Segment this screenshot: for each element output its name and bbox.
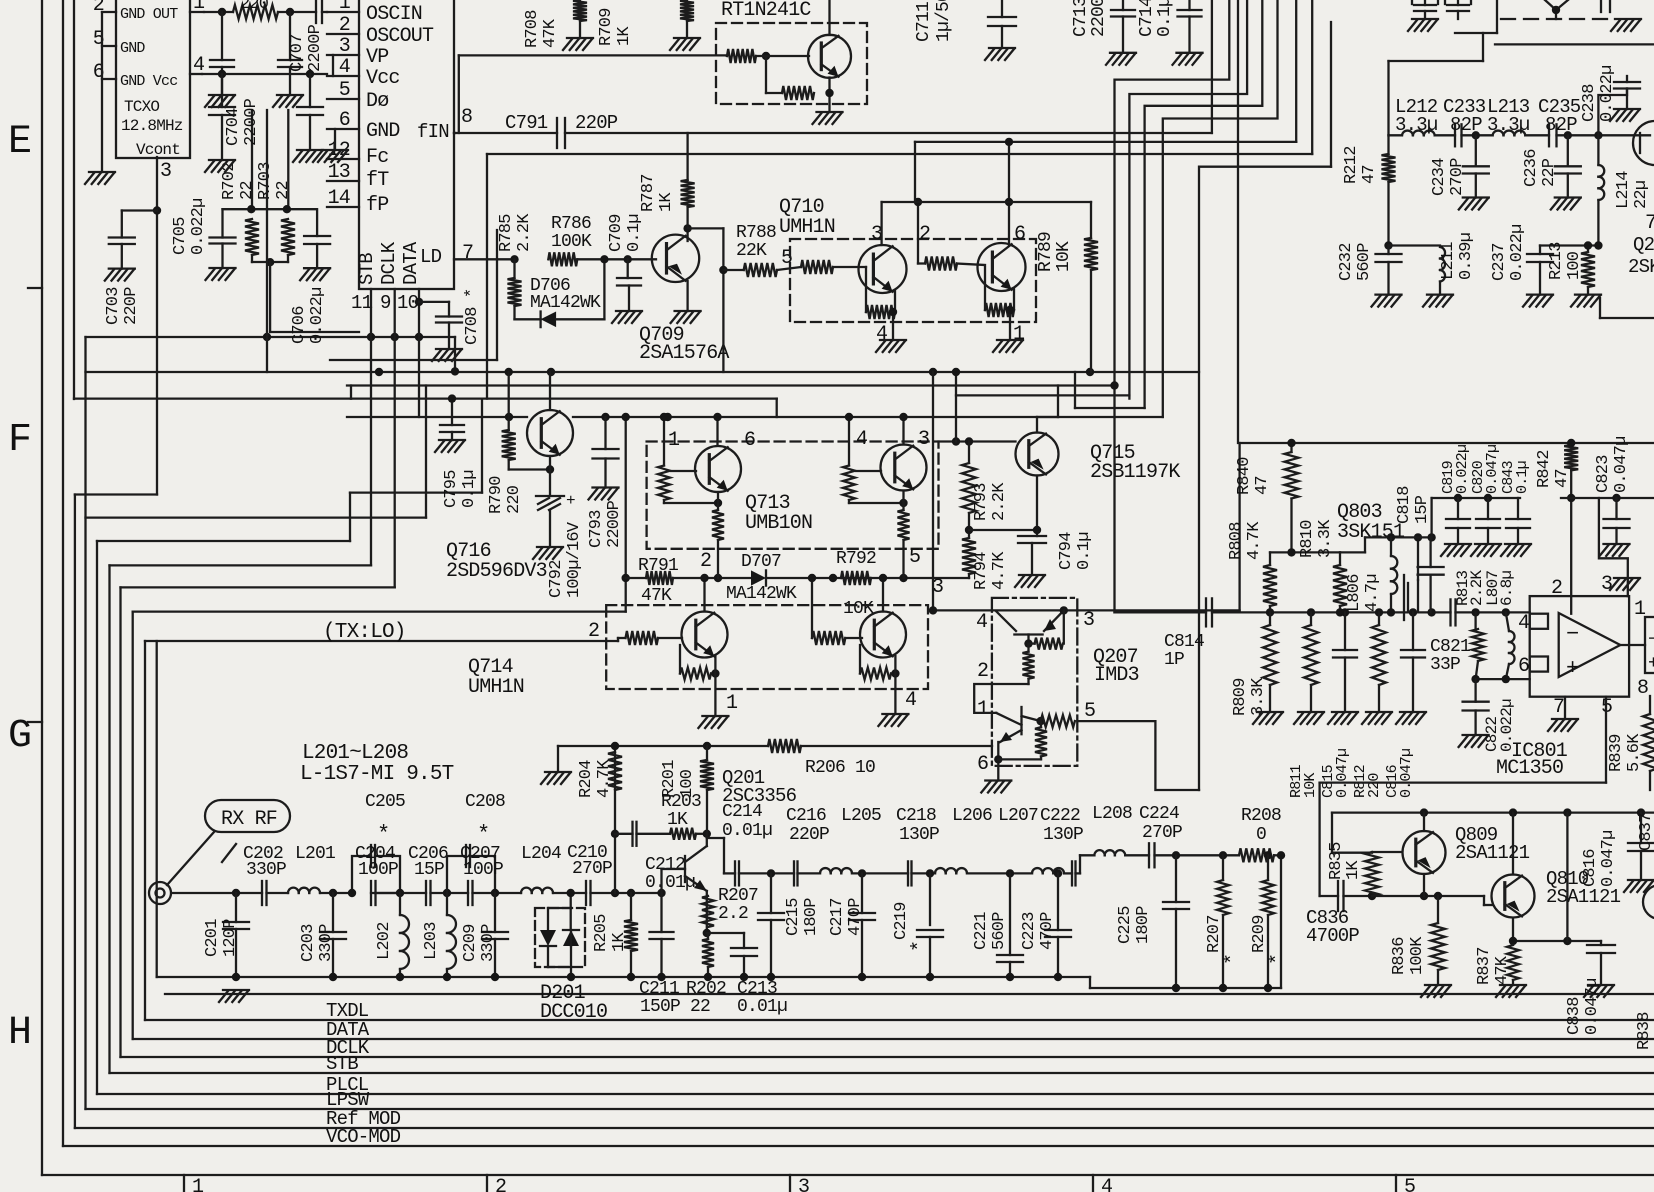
label L211 (1439, 233, 1476, 280)
wire TX:LO line (145, 638, 618, 641)
wire band y417 (347, 413, 1163, 421)
svg-text:2200P: 2200P (242, 98, 261, 146)
svg-text:3: 3 (1083, 609, 1094, 632)
resistor R786 (548, 252, 577, 266)
svg-text:1K: 1K (615, 26, 634, 46)
IC801 pin 4 (1518, 612, 1529, 635)
label R808 (1227, 521, 1264, 560)
svg-text:L211: L211 (1439, 242, 1458, 280)
transistor Q713 T2 (881, 445, 927, 491)
capacitor C838 (1587, 941, 1615, 985)
border frame bottom edge (42, 1174, 1654, 1176)
svg-text:+: + (1566, 656, 1578, 681)
svg-text:3: 3 (339, 35, 350, 58)
svg-text:0.39µ: 0.39µ (1457, 233, 1476, 280)
ground C820 (1471, 544, 1501, 556)
resistor R787 (681, 133, 695, 228)
svg-text:5: 5 (909, 546, 920, 569)
wire Q207 pin5 out (1077, 721, 1199, 790)
wire TCXO Vcc to IC (202, 73, 327, 75)
svg-text:47K: 47K (641, 586, 672, 606)
svg-text:C211: C211 (639, 979, 679, 999)
svg-text:Vcc: Vcc (366, 67, 400, 90)
svg-text:L201~L208: L201~L208 (302, 742, 408, 765)
svg-text:4.7K: 4.7K (990, 551, 1009, 590)
resistor R788 (723, 263, 777, 277)
svg-text:0.047µ: 0.047µ (1599, 831, 1618, 887)
svg-text:5: 5 (1404, 1176, 1415, 1192)
label C815 (1320, 749, 1351, 798)
svg-text:0.022µ: 0.022µ (189, 199, 208, 255)
wire LD stub (454, 258, 515, 260)
wire Q810 base (1484, 896, 1492, 905)
label C711 (914, 0, 954, 42)
label C819 (1440, 445, 1471, 494)
capacitor C211 (650, 893, 674, 981)
svg-text:10K: 10K (1054, 241, 1074, 272)
label R836 (1390, 936, 1427, 975)
svg-text:MA142WK: MA142WK (726, 584, 797, 604)
ground C232 (1372, 295, 1402, 307)
svg-text:C707: C707 (288, 34, 307, 72)
svg-text:47: 47 (1253, 476, 1272, 495)
wire band y409 (1075, 372, 1145, 408)
wire bus line DCLK (121, 1056, 1654, 1058)
resistor Q710 T2 emitter (985, 267, 1014, 317)
label R838 partial (1635, 1012, 1654, 1050)
capacitor C219 (917, 873, 943, 981)
wire filter chain (1389, 134, 1651, 136)
label R208 (1241, 806, 1281, 845)
column tick 1 (184, 1175, 204, 1192)
label L807 (1484, 571, 1516, 606)
svg-text:14: 14 (328, 187, 350, 210)
label L201-L208 group (300, 742, 454, 786)
resistor R793 (962, 442, 976, 514)
wire drain line y537 (1340, 533, 1436, 552)
wire Vcont vertical from TCXO pin3 (156, 157, 158, 495)
wire RX chain (172, 892, 662, 894)
label R205 (592, 914, 629, 952)
svg-text:12.8MHz: 12.8MHz (121, 117, 183, 135)
resistor R205 (624, 893, 638, 981)
ground C816 (1396, 712, 1426, 724)
svg-text:180P: 180P (802, 898, 821, 936)
svg-text:C209: C209 (461, 924, 480, 962)
Q207 pin 3 (1083, 609, 1094, 632)
capacitor C713 (1111, 0, 1135, 53)
trimmer cap top2 (1445, 0, 1471, 19)
svg-text:C706: C706 (290, 306, 309, 344)
svg-text:+: + (1648, 654, 1654, 674)
row tick G (28, 721, 42, 723)
svg-text:4: 4 (339, 56, 350, 79)
label R810 (1298, 519, 1335, 558)
PLL IC U701 box (359, 0, 454, 289)
TCXO box (116, 0, 190, 158)
svg-text:330P: 330P (317, 924, 336, 962)
wire Q201 emitter (703, 891, 711, 937)
svg-text:R201: R201 (660, 760, 679, 798)
wire R204 riser (611, 746, 619, 893)
ground C706 (300, 268, 330, 280)
resistor R811 (1304, 612, 1318, 712)
resistor Q713 T2 emitter (898, 491, 921, 579)
label IC801 (1496, 740, 1568, 780)
capacitor C836 (1338, 881, 1344, 911)
label R787 (639, 174, 676, 212)
wire C212 line (615, 833, 633, 835)
svg-text:C219: C219 (892, 902, 911, 940)
label L213 (1487, 96, 1530, 136)
ground C795 (435, 440, 465, 452)
label C823 (1594, 437, 1631, 493)
net label DCLK (326, 1037, 370, 1059)
Q713 box (647, 442, 939, 549)
label C836 (1306, 907, 1359, 947)
svg-text:22: 22 (690, 997, 710, 1017)
capacitor C822 (1463, 679, 1489, 735)
svg-text:220P: 220P (575, 112, 618, 134)
wire bus line y994 (165, 993, 1654, 995)
junction dot RT base (762, 52, 770, 60)
resistor Q713 T2 bias (843, 466, 908, 508)
label R708 (523, 10, 560, 48)
Q714 box (606, 605, 928, 689)
svg-text:1: 1 (977, 698, 989, 721)
ground Q714 pin1 (698, 716, 728, 728)
label Q710 (779, 196, 835, 239)
svg-text:R790: R790 (487, 476, 506, 514)
label L206 (952, 806, 992, 826)
label C791 (505, 112, 618, 134)
wire bus vertical DATA riser (132, 612, 134, 1039)
column tick 2 (487, 1175, 506, 1192)
wire riser A (1115, 0, 1230, 386)
svg-text:22: 22 (238, 181, 257, 200)
label R702 (220, 162, 257, 200)
wire D201 top (548, 889, 575, 930)
svg-text:2: 2 (588, 620, 599, 643)
label C236 (1522, 149, 1559, 187)
svg-text:R793: R793 (972, 483, 991, 521)
IC pin 9 (380, 289, 395, 587)
Q714 pin1 label (726, 692, 738, 715)
junction dot LD node (510, 255, 518, 263)
wire supply vertical x1238 (1237, 0, 1239, 443)
wire Q809 emitter (1423, 874, 1425, 896)
wire gate2 rail y552 (1270, 548, 1340, 556)
svg-text:470P: 470P (846, 898, 865, 936)
svg-text:0.022µ: 0.022µ (1508, 225, 1527, 281)
wire R788 to Q710 (777, 267, 801, 270)
svg-text:4: 4 (976, 611, 987, 634)
wire RT base (756, 55, 809, 57)
svg-text:R209: R209 (1250, 915, 1269, 953)
resistor R204 (608, 752, 622, 790)
svg-text:0.1µ: 0.1µ (1155, 0, 1175, 37)
wire Q809 supply (1332, 808, 1654, 852)
svg-text:C237: C237 (1490, 243, 1509, 281)
wire Q809 left drop (1320, 697, 1606, 896)
svg-text:R205: R205 (592, 914, 611, 952)
junction dot D707 east (829, 574, 837, 582)
svg-text:15P: 15P (414, 860, 444, 880)
junction dot C209 (491, 889, 499, 897)
capacitor C204 (371, 881, 376, 905)
ground C792 (533, 547, 563, 559)
label Q715 (1090, 442, 1180, 484)
ground R837 (1496, 985, 1526, 997)
wire bus line PLCL (97, 1093, 1654, 1095)
wire D201 bottom (548, 967, 575, 981)
wire Q714 T1 collector (700, 574, 708, 612)
wire R203 out (696, 830, 711, 838)
wire RX ground bus (157, 976, 1090, 978)
svg-text:4.7µ: 4.7µ (1363, 574, 1382, 612)
svg-text:C216: C216 (786, 806, 826, 826)
wire Q710 supply (882, 142, 1091, 202)
ground C236 (1551, 198, 1581, 210)
svg-text:2SA1121: 2SA1121 (1546, 886, 1621, 908)
svg-text:RT1N241C: RT1N241C (721, 0, 811, 22)
label C708 (463, 289, 482, 345)
ground C714 (1173, 53, 1203, 65)
label Q803 (1337, 501, 1405, 544)
capacitor C707 (297, 74, 323, 150)
svg-text:220: 220 (240, 0, 269, 14)
resistor R709 (680, 0, 694, 38)
capacitor C816 (1401, 612, 1425, 712)
resistor R209 star (1262, 855, 1274, 992)
resistor R208 (1239, 848, 1274, 862)
IC801 pin 5 (1601, 696, 1612, 719)
label R809 (1231, 677, 1268, 716)
resistor R791 (646, 571, 673, 585)
wire staircase PLCL branch (97, 399, 482, 541)
svg-text:5.6K: 5.6K (1625, 733, 1644, 772)
ground C838 (1584, 985, 1614, 997)
svg-text:C217: C217 (828, 898, 847, 936)
wire line y154 east (487, 0, 1312, 399)
svg-text:DCLK: DCLK (378, 241, 400, 285)
svg-text:LD: LD (420, 246, 442, 268)
label R788 (736, 223, 776, 261)
wire Q713 T2 base (856, 470, 881, 472)
wire riser x956 (952, 368, 960, 442)
svg-text:0: 0 (1256, 825, 1266, 845)
svg-text:DCC010: DCC010 (540, 1001, 607, 1024)
wire R786 to base (577, 258, 656, 260)
svg-text:0.01µ: 0.01µ (737, 997, 787, 1017)
TCXO pin 2 (93, 0, 116, 17)
svg-text:0.1µ: 0.1µ (1075, 532, 1094, 570)
wire Q715 collector node (969, 476, 1041, 537)
diode D706 (515, 259, 605, 327)
svg-text:2200P: 2200P (306, 24, 325, 72)
wire C212 to R203 (637, 833, 671, 835)
Q713 pin 4 (845, 413, 867, 466)
label C213 (737, 979, 787, 1017)
svg-text:L-1S7-MI 9.5T: L-1S7-MI 9.5T (300, 763, 454, 786)
label R794 (972, 551, 1009, 590)
ground IC801 pin7 (1548, 719, 1578, 731)
svg-text:L204: L204 (521, 844, 561, 864)
IC pin 6 GND (327, 109, 400, 143)
ground top right (1611, 19, 1641, 31)
svg-text:100: 100 (1565, 251, 1584, 280)
label R813 (1454, 570, 1486, 606)
svg-text:C218: C218 (896, 806, 936, 826)
wire bus line TXDL (145, 1019, 1654, 1021)
label C822 (1483, 699, 1516, 752)
svg-text:120P: 120P (221, 919, 240, 957)
svg-text:4: 4 (876, 323, 887, 346)
label L203 (422, 922, 441, 960)
svg-text:IMD3: IMD3 (1094, 664, 1139, 687)
svg-text:C214: C214 (722, 802, 762, 822)
ground C703 (105, 269, 135, 281)
ground RT1N241C (813, 112, 843, 124)
svg-text:C232: C232 (1337, 243, 1356, 281)
capacitor C216 (794, 861, 798, 885)
svg-text:7: 7 (1553, 696, 1564, 719)
resistor R837 (1507, 945, 1519, 985)
dashed line top right (1501, 0, 1610, 19)
svg-text:C816: C816 (1581, 849, 1600, 887)
svg-text:E: E (8, 120, 31, 165)
svg-text:C792: C792 (547, 560, 566, 598)
wire vertical x1200 (1198, 167, 1200, 790)
svg-text:C222: C222 (1040, 806, 1080, 826)
svg-text:C213: C213 (737, 979, 777, 999)
svg-text:2.2K: 2.2K (990, 482, 1009, 521)
label L204 (521, 844, 561, 864)
label R835 (1327, 842, 1363, 880)
resistor Q207 Rc (1036, 715, 1075, 727)
label C234 (1430, 158, 1467, 196)
label R207 star (1205, 915, 1245, 965)
IC fIN pin 8 (417, 106, 472, 143)
trimmer cap top1 (1412, 0, 1438, 19)
ground C708 (432, 349, 462, 361)
wire riser x933 (929, 372, 937, 615)
TCXO pin 4 (190, 54, 204, 77)
wire signal line y612 (1115, 611, 1530, 613)
wire line y167 east (1201, 166, 1332, 168)
capacitor series top (316, 1, 322, 23)
wire V1114 down (1110, 381, 1118, 612)
label Q713 (745, 492, 812, 535)
svg-text:MA142WK: MA142WK (530, 293, 601, 313)
junction dot R205 (627, 889, 635, 897)
resistor R212 (1382, 135, 1396, 245)
junction dots y209 (247, 205, 291, 213)
svg-text:UMB10N: UMB10N (745, 512, 812, 535)
wire TX:LO descent (156, 641, 158, 977)
wire C836 line (1320, 892, 1484, 900)
resistor 220 top (233, 0, 278, 19)
label C207 (460, 844, 503, 880)
capacitor C794 (1018, 536, 1046, 575)
svg-text:3: 3 (160, 160, 171, 183)
svg-text:2: 2 (1551, 577, 1562, 600)
svg-text:R788: R788 (736, 223, 776, 243)
ground C823 (1600, 544, 1630, 556)
svg-text:R208: R208 (1241, 806, 1281, 826)
svg-text:L207: L207 (998, 806, 1038, 826)
svg-text:C838: C838 (1565, 997, 1584, 1035)
RX RF balloon (205, 800, 290, 832)
label D706 (530, 276, 601, 313)
svg-text:6: 6 (977, 753, 988, 776)
junction dot C225 (1172, 851, 1180, 859)
IC801 input tab 4 (1530, 614, 1548, 629)
label R209 star (1250, 915, 1290, 965)
wire Q709 emitter gnd (686, 281, 688, 311)
Q207 pin 4 (976, 611, 987, 634)
svg-text:L202: L202 (375, 922, 394, 960)
svg-text:GND: GND (120, 40, 145, 57)
capacitor C208 (466, 845, 470, 867)
svg-text:1: 1 (192, 1176, 204, 1192)
svg-text:47K: 47K (1493, 955, 1512, 985)
capacitor C202 (262, 881, 267, 905)
svg-text:220: 220 (1366, 773, 1383, 798)
svg-text:TCXO: TCXO (124, 98, 159, 116)
transistor Q809 (1403, 831, 1446, 874)
transistor Q716 2SD596DV3 (527, 410, 573, 456)
label R201 (660, 760, 697, 798)
junction dot R212 bottom (1384, 241, 1392, 249)
svg-text:UMH1N: UMH1N (468, 676, 524, 699)
svg-text:C837: C837 (1637, 813, 1654, 851)
label C843 (1500, 460, 1531, 494)
wire corner box (1455, 0, 1654, 61)
label R212 (1342, 146, 1379, 184)
inductor L807 (1506, 612, 1515, 679)
capacitor C217 (849, 873, 875, 981)
IC801 pin 3 (1601, 573, 1612, 596)
label C704 (224, 98, 261, 146)
transistor Q810 (1492, 875, 1535, 918)
svg-text:H: H (8, 1011, 31, 1056)
capacitor C205 (371, 845, 375, 867)
capacitor C225 (1163, 855, 1189, 992)
svg-text:5: 5 (1084, 700, 1095, 723)
capacitor C236 (1555, 135, 1581, 197)
capacitor C233 (1455, 124, 1462, 146)
capacitor C704 (209, 74, 235, 160)
svg-text:Vcont: Vcont (136, 141, 180, 159)
row letter H (8, 1011, 31, 1056)
ground C816b (1624, 880, 1654, 892)
Q713 pin 1 (660, 413, 680, 466)
label R842 (1535, 450, 1572, 488)
IC pin 3 VP (327, 35, 388, 69)
inductor L204 (521, 888, 553, 893)
svg-text:8: 8 (1637, 677, 1648, 700)
label Q201 (722, 767, 797, 807)
Q207 pin 2 (977, 660, 988, 683)
svg-text:C203: C203 (299, 924, 318, 962)
wire band y385 (347, 384, 1115, 386)
svg-text:R787: R787 (639, 174, 658, 212)
label L202 (375, 922, 394, 960)
label C238 (1580, 66, 1617, 122)
junction dot C211 (657, 889, 665, 897)
capacitor C235 (1549, 124, 1557, 146)
